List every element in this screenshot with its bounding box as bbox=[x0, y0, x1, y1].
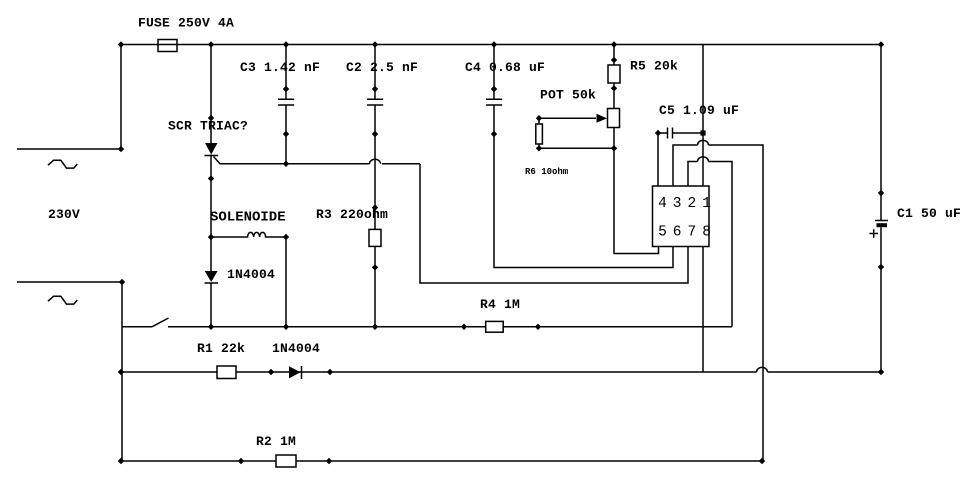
svg-text:7: 7 bbox=[688, 225, 697, 241]
wire hop over C2 column at x375 bbox=[370, 159, 381, 164]
node AC bottom bbox=[119, 279, 125, 285]
wire AC bottom terminal and left lower vertical bbox=[17, 282, 122, 461]
svg-text:2: 2 bbox=[688, 196, 697, 212]
node C2 bottom bbox=[372, 131, 378, 137]
wire between solenoid tap and D1 bbox=[210, 237, 212, 271]
node R4 left bbox=[461, 324, 467, 330]
svg-text:1N4004: 1N4004 bbox=[272, 341, 320, 356]
svg-text:SOLENOIDE: SOLENOIDE bbox=[210, 210, 286, 226]
resistor R6 bottom lead and tie to pot bottom bbox=[539, 144, 614, 148]
capacitor C5 right lead bbox=[673, 132, 704, 134]
node R2 row right bbox=[759, 458, 765, 464]
wire pot bottom through lower tap down to pin 5 bbox=[614, 128, 659, 254]
wire main middle row y=327 to pin2 riser bbox=[211, 326, 732, 328]
svg-text:R2 1M: R2 1M bbox=[256, 434, 296, 449]
resistor R3 body bbox=[369, 229, 381, 246]
node R3 bottom bbox=[372, 264, 378, 270]
node pot bottom bbox=[611, 145, 617, 151]
svg-text:5: 5 bbox=[658, 225, 667, 241]
node switch row x286 bbox=[283, 324, 289, 330]
node SCR anode bbox=[208, 115, 214, 121]
potentiometer POT body bbox=[608, 109, 620, 128]
svg-text:R5 20k: R5 20k bbox=[630, 59, 678, 74]
node R4 right bbox=[535, 324, 541, 330]
node R5 bottom bbox=[611, 85, 617, 91]
node top rail x375 bbox=[372, 41, 378, 47]
AC source bottom sine symbol bbox=[48, 296, 77, 304]
node SCR cathode bbox=[208, 175, 214, 181]
resistor R5 top lead bbox=[613, 45, 615, 66]
wire D1 cathode to switch row bbox=[210, 283, 212, 327]
fuse F1 body bbox=[158, 40, 177, 52]
capacitor C1 top lead bbox=[880, 45, 882, 221]
wire left vertical from rail to AC top terminal bbox=[17, 45, 121, 150]
svg-text:230V: 230V bbox=[48, 207, 80, 222]
resistor R5 body bbox=[608, 65, 620, 83]
svg-text:R1 22k: R1 22k bbox=[197, 341, 245, 356]
node C5 right square bbox=[700, 130, 705, 135]
node solenoid right bbox=[283, 234, 289, 240]
wire hop over x762 riser on R1 row bbox=[757, 367, 768, 372]
capacitor C2 plates bbox=[367, 99, 383, 105]
resistor R6 top lead bbox=[538, 118, 540, 124]
svg-text:R6 10ohm: R6 10ohm bbox=[525, 167, 569, 177]
svg-text:C4 0.68 uF: C4 0.68 uF bbox=[465, 60, 545, 75]
svg-text:C2 2.5 nF: C2 2.5 nF bbox=[346, 60, 418, 75]
node R6 bottom bbox=[536, 145, 542, 151]
node C2 top bbox=[372, 86, 378, 92]
svg-text:4: 4 bbox=[658, 196, 667, 212]
node R1 row right bbox=[878, 369, 884, 375]
wire top supply rail bbox=[121, 44, 881, 46]
wire hop over x703 riser at y161 bbox=[698, 157, 709, 162]
wire SCR anode drop from rail bbox=[210, 45, 212, 144]
wire SCR cathode down to solenoid tap bbox=[210, 155, 212, 238]
wire hop over x703 riser at y145 bbox=[698, 140, 709, 145]
capacitor C2 bottom lead down to R3 bbox=[374, 105, 376, 229]
wire pin 4 riser from C5 left node bbox=[657, 133, 659, 186]
resistor R6 body bbox=[536, 124, 543, 144]
node C3 top bbox=[283, 86, 289, 92]
capacitor C4 top lead bbox=[493, 45, 495, 100]
svg-text:SCR TRIAC?: SCR TRIAC? bbox=[168, 119, 248, 134]
capacitor C5 plates bbox=[668, 128, 673, 139]
capacitor C1 plus sign bbox=[870, 229, 879, 237]
svg-text:R4 1M: R4 1M bbox=[480, 297, 520, 312]
wire SCR gate run to node column bbox=[214, 157, 421, 164]
capacitor C3 top lead bbox=[285, 45, 287, 100]
node solenoid left bbox=[208, 234, 214, 240]
svg-text:POT 50k: POT 50k bbox=[540, 88, 596, 103]
node top rail x211 bbox=[208, 41, 214, 47]
node switch row x211 bbox=[208, 324, 214, 330]
wire R5 to potentiometer bbox=[613, 83, 615, 109]
capacitor C5 left lead bbox=[658, 132, 668, 134]
wire solenoid right side drop bbox=[285, 237, 287, 327]
diode D1 1N4004 (vertical) bbox=[205, 271, 219, 283]
capacitor C3 bottom lead bbox=[285, 105, 287, 164]
node C5 left bbox=[655, 130, 661, 136]
resistor R1 body bbox=[217, 366, 236, 379]
node wiper left bbox=[536, 115, 542, 121]
wire pin 3 net over to x763 riser bbox=[673, 145, 763, 461]
switch S1 bbox=[122, 318, 211, 327]
resistor R2 body bbox=[276, 455, 296, 467]
capacitor C3 plates bbox=[278, 99, 294, 105]
svg-text:1: 1 bbox=[702, 196, 711, 212]
SCR/TRIAC Q1 symbol bbox=[205, 143, 219, 156]
node top rail x614 bbox=[611, 41, 617, 47]
node C4 top bbox=[491, 86, 497, 92]
node D2 anode bbox=[268, 369, 274, 375]
svg-text:8: 8 bbox=[702, 225, 711, 241]
potentiometer wiper arrow wire bbox=[539, 117, 596, 119]
capacitor C4 plates bbox=[486, 99, 502, 105]
node C4 bottom bbox=[491, 131, 497, 137]
resistor R4 body bbox=[486, 321, 504, 332]
svg-text:R3 220ohm: R3 220ohm bbox=[316, 207, 388, 222]
node R2 left bbox=[238, 458, 244, 464]
node C1 bottom bbox=[878, 264, 884, 270]
wire R2 bottom row y=461 bbox=[121, 460, 762, 462]
capacitor C1 electrolytic plates bbox=[875, 221, 888, 228]
node R1 row left bbox=[118, 369, 124, 375]
node R2 row left bbox=[118, 458, 124, 464]
node D2 cathode bbox=[327, 369, 333, 375]
node C3 gate wire bbox=[283, 161, 289, 167]
svg-text:C3 1.42 nF: C3 1.42 nF bbox=[240, 60, 320, 75]
node switch row x375 bbox=[372, 324, 378, 330]
node C1 top bbox=[878, 190, 884, 196]
wire pin 1 riser to top rail bbox=[702, 45, 704, 187]
node R2 right bbox=[326, 458, 332, 464]
node AC top bbox=[118, 146, 124, 152]
wire pin 8 drop to R1 row bbox=[702, 247, 704, 373]
svg-text:3: 3 bbox=[673, 196, 682, 212]
wire gate net down and across to pin 7 bbox=[420, 164, 688, 283]
wire R3 bottom lead to middle row bbox=[374, 246, 376, 326]
svg-text:6: 6 bbox=[673, 225, 682, 241]
node C3 bottom bbox=[283, 131, 289, 137]
AC source top sine symbol bbox=[48, 160, 77, 168]
node R5 top bbox=[611, 57, 617, 63]
node top rail x494 bbox=[491, 41, 497, 47]
node top rail x121 bbox=[118, 41, 124, 47]
IC U1 body bbox=[653, 186, 710, 247]
svg-text:C5 1.09 uF: C5 1.09 uF bbox=[659, 103, 739, 118]
svg-text:1N4004: 1N4004 bbox=[227, 267, 275, 282]
solenoid L1 coil bbox=[211, 232, 286, 237]
diode D2 1N4004 (horizontal) bbox=[289, 366, 302, 379]
wire R1 row y=372 bbox=[121, 371, 881, 373]
node top rail x881 bbox=[878, 41, 884, 47]
wire pin 2 net over to x732 riser bbox=[688, 162, 732, 327]
capacitor C2 top lead bbox=[374, 45, 376, 100]
node R3 top bbox=[372, 204, 378, 210]
svg-text:C1 50 uF: C1 50 uF bbox=[897, 206, 961, 221]
capacitor C4 bottom lead routed to pin 6 bbox=[494, 105, 673, 268]
capacitor C1 bottom lead to R1 row bbox=[880, 227, 882, 372]
node top rail x286 bbox=[283, 41, 289, 47]
svg-text:FUSE 250V 4A: FUSE 250V 4A bbox=[138, 16, 234, 31]
potentiometer wiper arrowhead bbox=[597, 114, 608, 123]
